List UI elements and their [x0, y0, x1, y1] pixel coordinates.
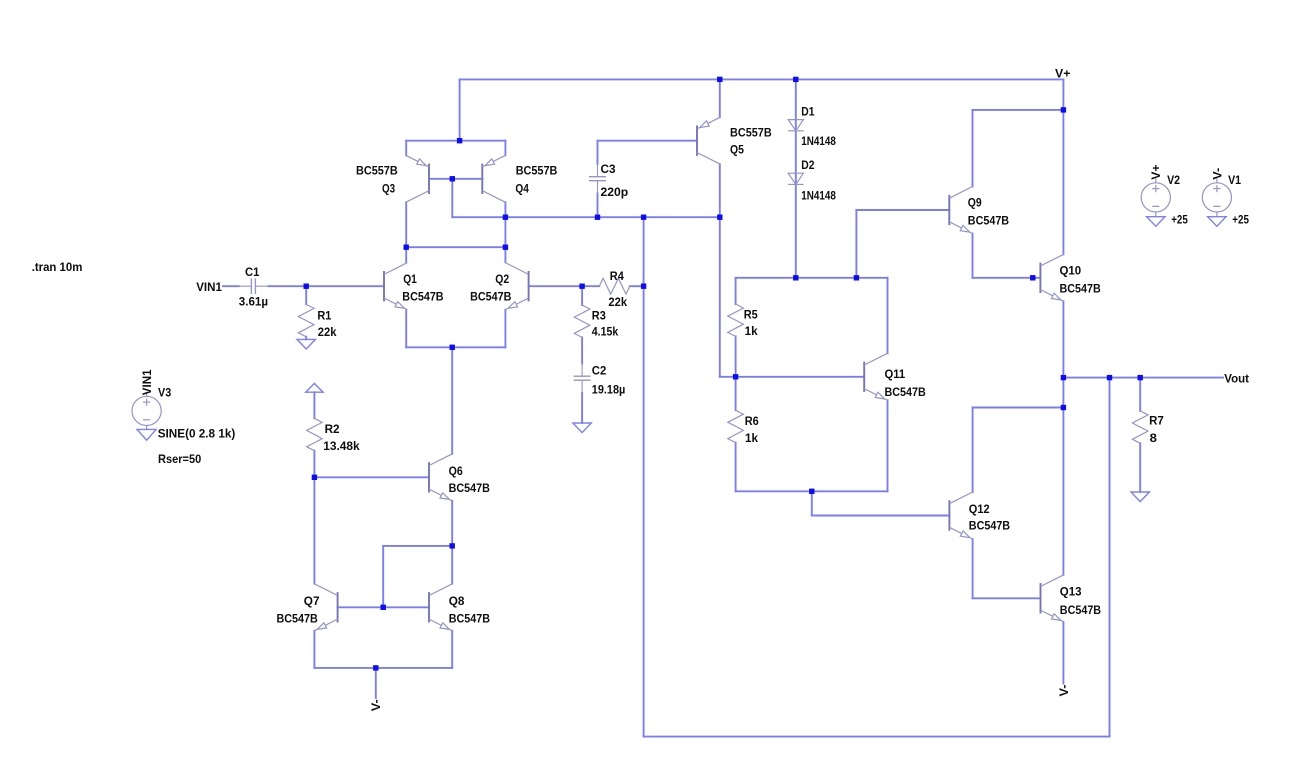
- svg-text:R4: R4: [610, 269, 624, 283]
- capacitor C1: [250, 278, 252, 294]
- wire down to Q7 collector: [313, 477, 315, 583]
- ground R7: [1131, 492, 1149, 502]
- wire C3 to Q5 base: [598, 140, 698, 142]
- wire bias bottom rail: [736, 490, 888, 492]
- svg-text:V-: V-: [1210, 168, 1224, 180]
- svg-text:Q5: Q5: [730, 143, 744, 157]
- wire V+ through D1 D2 to bias rail: [795, 79, 797, 277]
- svg-text:Q10: Q10: [1060, 263, 1082, 277]
- resistor R3: [574, 305, 590, 337]
- voltage source V3: [132, 396, 161, 425]
- node junction: [1061, 375, 1066, 380]
- wire Q3-Q4 emitter rail: [406, 140, 505, 142]
- wire Q9 collector lead: [972, 110, 974, 187]
- resistor R1: [298, 304, 314, 336]
- svg-text:22k: 22k: [608, 295, 627, 309]
- svg-text:R3: R3: [592, 309, 606, 323]
- svg-text:Q11: Q11: [885, 367, 906, 381]
- wire Q6 emitter to mirror: [383, 545, 452, 547]
- wire base node drop: [451, 179, 453, 217]
- node junction: [793, 275, 798, 280]
- node junction: [579, 284, 584, 289]
- svg-text:C1: C1: [245, 265, 260, 279]
- wire Q13 emitter to V- flag: [1062, 622, 1064, 684]
- resistor R2: [307, 418, 323, 450]
- svg-text:.tran 10m: .tran 10m: [32, 260, 83, 274]
- wire mirror base drop: [382, 546, 384, 607]
- wire Q7-Q8 emitter rail: [314, 667, 452, 669]
- wire Q4 emitter lead: [504, 141, 506, 156]
- wire R5 top lead: [735, 278, 737, 304]
- svg-text:220p: 220p: [601, 185, 629, 199]
- transistor Q8: [428, 592, 430, 622]
- svg-text:V1: V1: [1228, 173, 1241, 187]
- svg-text:V3: V3: [158, 385, 171, 399]
- wire Q3-Q4 base interconnect: [429, 178, 482, 180]
- node junction: [1061, 107, 1066, 112]
- ground V1: [1208, 217, 1226, 227]
- wire C2 to ground: [581, 393, 583, 423]
- wire feedback rise: [643, 217, 645, 736]
- node junction: [793, 77, 798, 82]
- node junction: [733, 374, 738, 379]
- svg-text:BC557B: BC557B: [516, 164, 558, 178]
- node junction: [1107, 375, 1112, 380]
- wire Q5 emitter lead: [719, 79, 721, 117]
- svg-text:19.18µ: 19.18µ: [592, 383, 626, 397]
- wire V+ rail drop to mirror: [459, 79, 461, 140]
- transistor Q9: [948, 195, 950, 225]
- wire Q1 emitter lead: [405, 310, 407, 348]
- wire R1 bottom lead: [305, 337, 307, 340]
- wire R6 top lead: [735, 377, 737, 410]
- svg-text:Q12: Q12: [969, 502, 990, 516]
- svg-text:BC547B: BC547B: [1060, 282, 1101, 296]
- wire R7 top lead: [1139, 378, 1141, 411]
- wire Q9 collector to V+ line: [973, 109, 1064, 111]
- svg-text:R6: R6: [745, 414, 759, 428]
- transistor Q10: [1039, 263, 1041, 293]
- wire R3 to C2: [581, 337, 583, 363]
- svg-text:Q9: Q9: [968, 196, 982, 210]
- resistor R4: [599, 278, 630, 294]
- svg-text:D1: D1: [801, 104, 814, 118]
- svg-text:Q13: Q13: [1060, 585, 1082, 599]
- svg-text:BC547B: BC547B: [885, 385, 926, 399]
- svg-text:V2: V2: [1167, 173, 1180, 187]
- diode D2: [788, 173, 803, 184]
- node junction: [1138, 375, 1143, 380]
- wire Q11 emitter lead: [887, 400, 889, 491]
- wire R2 bottom lead: [313, 451, 315, 478]
- node junction: [450, 176, 455, 181]
- wire output line to Q13 collector: [1062, 378, 1064, 575]
- svg-text:1N4148: 1N4148: [801, 189, 836, 203]
- wire Q5 collector to mid rail: [719, 217, 721, 377]
- svg-text:R7: R7: [1149, 414, 1164, 428]
- transistor Q5: [696, 126, 698, 156]
- node junction: [641, 215, 646, 220]
- wire R1 top lead: [305, 286, 307, 304]
- wire Q3 collector to Q1 collector: [405, 202, 407, 262]
- voltage source V1: [1202, 183, 1231, 212]
- node junction: [717, 77, 722, 82]
- svg-text:Q7: Q7: [304, 594, 320, 608]
- wire Q2 emitter lead: [504, 310, 506, 348]
- transistor Q2: [528, 271, 530, 301]
- wire R5 bottom lead: [735, 336, 737, 376]
- capacitor C3: [589, 176, 606, 178]
- wire diff emitter rail: [406, 346, 505, 348]
- svg-text:SINE(0 2.8 1k): SINE(0 2.8 1k): [158, 427, 236, 441]
- node junction: [404, 245, 409, 250]
- svg-text:Q1: Q1: [403, 272, 417, 286]
- wire collector rail: [406, 246, 505, 248]
- node junction: [457, 138, 462, 143]
- svg-text:1k: 1k: [745, 324, 758, 338]
- wire Q5 collector lead: [719, 164, 721, 217]
- wire Q3 emitter lead: [405, 141, 407, 156]
- wire Q11 collector lead: [887, 278, 889, 354]
- svg-text:V-: V-: [1057, 685, 1071, 697]
- svg-text:Rser=50: Rser=50: [158, 452, 201, 466]
- resistor R5: [728, 304, 744, 336]
- svg-text:R5: R5: [744, 308, 758, 322]
- wire V+ rail: [460, 78, 1064, 80]
- node junction: [1061, 405, 1066, 410]
- ground R1: [297, 339, 315, 349]
- svg-text:C3: C3: [601, 162, 616, 176]
- wire Vout rail: [1063, 377, 1223, 379]
- node junction: [381, 605, 386, 610]
- wire Q10 emitter to Vout rail: [1062, 301, 1064, 377]
- wire C3 top lead: [597, 141, 599, 164]
- svg-text:VIN1: VIN1: [196, 280, 222, 294]
- svg-text:BC547B: BC547B: [1060, 603, 1101, 617]
- svg-text:BC547B: BC547B: [402, 290, 443, 304]
- svg-text:Vout: Vout: [1224, 371, 1249, 385]
- svg-text:R1: R1: [317, 308, 331, 322]
- node junction: [304, 284, 309, 289]
- wire feedback drop: [1109, 378, 1111, 737]
- node junction: [809, 489, 814, 494]
- resistor R7: [1132, 411, 1148, 443]
- ground V2: [1147, 217, 1165, 227]
- svg-text:R2: R2: [325, 422, 340, 436]
- diode D1: [788, 120, 803, 131]
- wire R2 top lead: [313, 392, 315, 418]
- svg-text:Q4: Q4: [515, 182, 529, 196]
- resistor R6: [728, 410, 744, 442]
- wire VIN1 to C1: [223, 285, 239, 287]
- ground C2: [573, 423, 591, 433]
- svg-text:C2: C2: [592, 364, 607, 378]
- wire R4 left lead: [582, 285, 599, 287]
- svg-text:BC547B: BC547B: [277, 611, 318, 625]
- node junction: [503, 245, 508, 250]
- transistor Q3: [428, 164, 430, 194]
- svg-text:1N4148: 1N4148: [801, 134, 836, 148]
- flag above R2: [306, 383, 323, 392]
- svg-text:Q6: Q6: [449, 464, 463, 478]
- wire Q7 emitter lead: [313, 631, 315, 668]
- wire Q9 base drop: [855, 210, 857, 278]
- ground V3: [137, 429, 156, 440]
- svg-text:BC557B: BC557B: [730, 126, 772, 140]
- svg-text:8: 8: [1150, 431, 1157, 445]
- wire bias to Q12 drop: [811, 491, 813, 515]
- wire Q9 base: [856, 209, 949, 211]
- wire R6 bottom lead: [735, 443, 737, 492]
- wire to Q12 base: [812, 515, 950, 517]
- node junction: [717, 215, 722, 220]
- wire R3 top lead: [581, 286, 583, 305]
- node junction: [450, 345, 455, 350]
- svg-text:22k: 22k: [318, 325, 337, 339]
- wire feedback bottom: [644, 736, 1110, 738]
- wire Q12 collector to output line: [973, 407, 1064, 409]
- svg-text:3.61µ: 3.61µ: [239, 295, 268, 309]
- svg-text:+25: +25: [1171, 212, 1188, 226]
- svg-text:VIN1: VIN1: [140, 369, 154, 395]
- wire R2 to Q6 base: [314, 476, 429, 478]
- transistor Q6: [428, 462, 430, 492]
- node junction: [1030, 275, 1035, 280]
- node junction: [503, 215, 508, 220]
- svg-text:BC547B: BC547B: [968, 214, 1009, 228]
- svg-text:4.15k: 4.15k: [592, 325, 619, 339]
- transistor Q7: [337, 592, 339, 622]
- node junction: [450, 543, 455, 548]
- wire V+ down to Q10 collector: [1062, 79, 1064, 254]
- wire Q12 emitter lead: [972, 539, 974, 598]
- wire Q9 emitter lead: [972, 234, 974, 278]
- wire Q8 emitter lead: [451, 631, 453, 668]
- wire Q8 collector lead: [451, 546, 453, 584]
- transistor Q12: [948, 500, 950, 530]
- svg-text:Q3: Q3: [382, 182, 395, 196]
- svg-text:BC547B: BC547B: [969, 519, 1010, 533]
- voltage source V2: [1141, 183, 1170, 212]
- wire C1 to Q1 base: [269, 285, 384, 287]
- capacitor C2: [574, 375, 591, 377]
- node junction: [595, 215, 600, 220]
- wire R4 right lead: [630, 285, 644, 287]
- wire mid rail to Q11 base: [720, 376, 864, 378]
- wire R7 bottom lead: [1139, 443, 1141, 492]
- node junction: [312, 475, 317, 480]
- wire Q12 collector lead: [972, 408, 974, 493]
- wire mirror-output rail to Q5: [452, 216, 720, 218]
- wire Q4 collector to Q2 collector: [504, 202, 506, 262]
- svg-text:BC547B: BC547B: [449, 612, 490, 626]
- node junction: [373, 665, 378, 670]
- wire tail current line: [451, 347, 453, 454]
- svg-text:V+: V+: [1149, 164, 1163, 179]
- transistor Q4: [481, 164, 483, 194]
- svg-text:BC557B: BC557B: [356, 164, 398, 178]
- wire bias top rail: [736, 277, 888, 279]
- svg-text:V+: V+: [1055, 67, 1070, 81]
- svg-text:D2: D2: [801, 158, 814, 172]
- wire V- flag stem: [375, 668, 377, 698]
- wire Q2 base: [529, 285, 583, 287]
- wire Q7-Q8 base rail: [338, 606, 429, 608]
- wire Q12 emitter to Q13 base: [973, 597, 1041, 599]
- svg-text:V-: V-: [369, 699, 383, 711]
- svg-text:BC547B: BC547B: [470, 290, 511, 304]
- svg-text:+25: +25: [1232, 212, 1249, 226]
- transistor Q13: [1040, 583, 1042, 613]
- node junction: [641, 284, 646, 289]
- svg-text:Q8: Q8: [449, 594, 465, 608]
- transistor Q1: [383, 271, 385, 301]
- wire Q9 emitter to Q10 base: [973, 277, 1041, 279]
- wire C3 bottom lead: [597, 193, 599, 217]
- wire Q6 emitter lead: [451, 501, 453, 546]
- svg-text:BC547B: BC547B: [449, 481, 490, 495]
- node junction: [854, 275, 859, 280]
- svg-text:Q2: Q2: [495, 272, 509, 286]
- svg-text:13.48k: 13.48k: [323, 439, 360, 453]
- svg-text:1k: 1k: [745, 431, 758, 445]
- transistor Q11: [863, 362, 865, 392]
